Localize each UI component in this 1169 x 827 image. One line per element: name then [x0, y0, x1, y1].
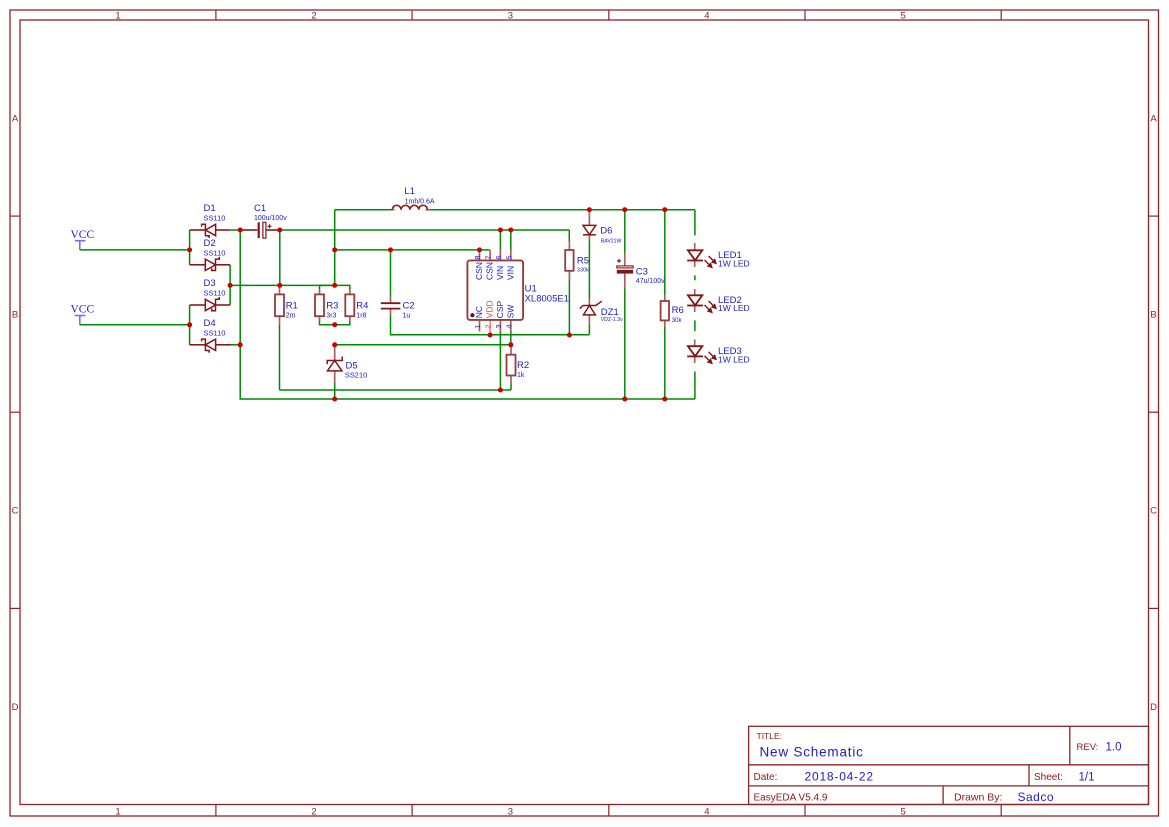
wire pin3 drop to CSP line [499, 331, 501, 390]
pin 2 VDD stub (red) [489, 320, 491, 335]
wire R2 bottom stub [510, 383, 512, 390]
wire pin5 riser [510, 230, 512, 250]
diode D1 SS110 [202, 224, 210, 238]
svg-text:R4: R4 [356, 301, 368, 312]
svg-text:7: 7 [484, 255, 493, 259]
svg-text:SS210: SS210 [345, 371, 368, 380]
svg-text:REV:: REV: [1077, 742, 1099, 753]
svg-text:1W LED: 1W LED [718, 303, 750, 313]
svg-text:SS110: SS110 [204, 329, 226, 338]
wire D2 cathode run [216, 264, 231, 266]
wire D2-D3 cathode link [229, 265, 231, 305]
svg-text:SS110: SS110 [204, 249, 226, 258]
svg-text:5: 5 [900, 11, 905, 22]
wire CSP line y390 [280, 389, 512, 391]
wire CSN line y250 [335, 249, 490, 251]
svg-text:1u: 1u [403, 313, 411, 320]
wire D4 cathode run [190, 344, 206, 346]
svg-text:1: 1 [115, 11, 120, 22]
wire bridge negative and ground rail [240, 230, 695, 399]
wire R5 bottom to VDD line [568, 271, 570, 335]
wire D3 anode run [190, 304, 206, 306]
svg-text:R3: R3 [326, 301, 338, 312]
svg-text:D4: D4 [204, 318, 216, 329]
resistor R4 1r8 [345, 294, 354, 316]
wire VCC upper to bridge node [80, 249, 190, 251]
wire inductor rail right [430, 209, 695, 211]
wire C1 left lead [240, 229, 257, 231]
svg-text:A: A [1150, 114, 1157, 125]
svg-text:D3: D3 [204, 278, 216, 289]
svg-text:100u/100v: 100u/100v [254, 215, 287, 222]
svg-text:C3: C3 [636, 266, 648, 277]
svg-text:R1: R1 [286, 301, 298, 312]
svg-text:47u/100v: 47u/100v [636, 278, 665, 285]
component pin stubs [568, 241, 570, 250]
svg-text:R6: R6 [672, 305, 684, 316]
wire L1 left riser [334, 210, 336, 286]
wire R3-R4 top staple [320, 285, 350, 291]
capacitor C1 100u/100v (polarized) [258, 222, 260, 238]
svg-text:SW: SW [505, 305, 515, 319]
LED LED1 1W LED [688, 250, 702, 260]
diode D4 SS110 [202, 339, 210, 353]
svg-text:B: B [12, 310, 18, 321]
inductor L1 1mh/0.6A [392, 205, 427, 209]
svg-text:8: 8 [473, 255, 482, 259]
svg-text:C: C [12, 506, 19, 517]
svg-text:2018-04-22: 2018-04-22 [805, 769, 874, 783]
wire D6-DZ1 link [588, 241, 590, 299]
wire D1 cathode run [190, 229, 206, 231]
resistor R3 3r3 [315, 294, 324, 316]
wire R6 top drop [664, 210, 666, 295]
wire C1 right lead [266, 229, 280, 231]
wire C1 plus down to R1 top [279, 230, 281, 285]
svg-text:L1: L1 [404, 186, 415, 197]
svg-text:D2: D2 [204, 238, 216, 249]
svg-text:6: 6 [494, 255, 503, 259]
svg-text:BAV21W: BAV21W [601, 239, 622, 245]
svg-text:3r3: 3r3 [326, 313, 336, 320]
svg-text:3: 3 [508, 807, 513, 818]
svg-text:2: 2 [311, 807, 316, 818]
diode D5 SS210 [327, 357, 342, 365]
svg-text:2m: 2m [286, 313, 296, 320]
wire R3-R4 bottom staple [320, 320, 350, 325]
wire D4 anode run [216, 344, 231, 346]
wire VCC lower to bridge node [80, 324, 190, 326]
svg-text:R2: R2 [517, 360, 529, 371]
wire LED string top drop [694, 210, 696, 236]
svg-text:VCC: VCC [71, 304, 95, 316]
svg-text:SS110: SS110 [204, 289, 226, 298]
resistor R1 2m [275, 294, 284, 316]
op-amp/regulator U1 XL8005E1 body [467, 260, 523, 320]
wire R6 bottom drop [664, 327, 666, 399]
wire R1 bottom drop [279, 325, 281, 390]
svg-text:EasyEDA V5.4.9: EasyEDA V5.4.9 [754, 793, 828, 804]
capacitor C3 47u/100v (polarized) [617, 260, 621, 262]
svg-text:VCC: VCC [71, 229, 95, 241]
wire junction dots [187, 247, 192, 252]
wire R5 top stub [568, 230, 570, 241]
wire LED2-LED3 link [694, 320, 696, 331]
wire pin4 drop to SW line [510, 331, 512, 345]
svg-text:1W LED: 1W LED [718, 354, 750, 364]
LED LED2 1W LED [688, 295, 702, 305]
svg-text:C: C [1150, 506, 1157, 517]
LED LED3 1W LED [688, 346, 702, 356]
svg-text:A: A [12, 114, 19, 125]
svg-text:CSP: CSP [495, 300, 505, 318]
svg-text:5: 5 [900, 807, 905, 818]
svg-text:R5: R5 [577, 255, 589, 266]
wire bridge left vertical D3-D4 [189, 305, 191, 345]
svg-text:1/1: 1/1 [1079, 771, 1095, 783]
svg-text:2: 2 [484, 324, 493, 328]
svg-text:1W LED: 1W LED [718, 258, 750, 268]
wire D1 anode run [216, 229, 230, 231]
svg-text:Sadco: Sadco [1018, 790, 1055, 804]
svg-text:1mh/0.6A: 1mh/0.6A [405, 198, 435, 205]
capacitor C2 1u [381, 302, 401, 304]
wire C3 bottom drop [624, 289, 626, 400]
wire LED3 to ground rail [694, 372, 696, 400]
svg-text:1r8: 1r8 [356, 313, 366, 320]
svg-text:4: 4 [704, 11, 709, 22]
column tick marks [215, 10, 217, 20]
wire SW line y345 [335, 344, 511, 346]
svg-text:CSN: CSN [474, 262, 484, 280]
svg-text:VIN: VIN [505, 266, 515, 280]
title block grid [749, 726, 1149, 804]
wire inductor rail left [335, 209, 393, 211]
svg-text:D: D [12, 702, 19, 713]
wire D2 anode run [190, 264, 206, 266]
wire D3 cathode run [216, 304, 231, 306]
svg-text:330k: 330k [577, 268, 589, 274]
wire C3 top drop [624, 210, 626, 253]
svg-text:Date:: Date: [754, 772, 778, 783]
svg-text:D1: D1 [204, 203, 216, 214]
svg-text:VDZ-1.3v: VDZ-1.3v [601, 317, 623, 323]
wire pin6 riser [499, 230, 501, 250]
svg-text:Drawn By:: Drawn By: [954, 792, 1002, 804]
wire top rail y230 C1 to R5 [280, 229, 570, 231]
diode D3 SS110 [212, 297, 220, 311]
wire bridge left vertical D1-D2 [189, 230, 191, 265]
wire C2 bottom to VDD line [391, 316, 590, 335]
svg-text:C1: C1 [254, 203, 266, 214]
svg-text:New Schematic: New Schematic [760, 745, 864, 760]
svg-text:TITLE:: TITLE: [757, 731, 783, 741]
svg-text:30k: 30k [672, 317, 683, 324]
svg-text:1: 1 [473, 324, 482, 328]
svg-text:3: 3 [508, 11, 513, 22]
svg-text:SS110: SS110 [204, 214, 226, 223]
diode D6 BAV21W [583, 225, 596, 234]
svg-text:1: 1 [115, 807, 120, 818]
svg-text:D6: D6 [600, 225, 612, 236]
svg-text:VIN: VIN [495, 266, 505, 280]
diode D2 SS110 [212, 257, 220, 271]
resistor R6 30k [661, 301, 669, 320]
svg-text:1k: 1k [517, 372, 525, 379]
svg-text:Sheet:: Sheet: [1034, 772, 1063, 783]
svg-text:C2: C2 [403, 301, 415, 312]
resistor R5 330k [565, 250, 573, 271]
svg-text:NC: NC [474, 306, 484, 318]
zener diode DZ1 VDZ-1.3v [580, 301, 602, 308]
svg-text:CSN: CSN [485, 262, 495, 280]
svg-text:2: 2 [311, 11, 316, 22]
svg-text:B: B [1150, 310, 1156, 321]
wire DZ1 bottom riser [588, 326, 590, 335]
wire LED1-LED2 link [694, 275, 696, 280]
row tick marks [10, 215, 20, 217]
resistor R2 1k [507, 355, 516, 376]
svg-text:3: 3 [494, 324, 503, 328]
wire bridge output to R1 R3 R4 top [230, 284, 335, 286]
wire D5 bottom to ground rail [334, 383, 336, 399]
wire C2 top stub [390, 250, 392, 296]
U1 pin 1 indicator dot [470, 313, 474, 317]
svg-text:4: 4 [504, 324, 513, 328]
svg-text:D: D [1150, 702, 1157, 713]
svg-text:4: 4 [704, 807, 709, 818]
svg-text:1.0: 1.0 [1106, 741, 1122, 753]
svg-text:XL8005E1: XL8005E1 [525, 293, 569, 304]
svg-text:5: 5 [504, 255, 513, 259]
svg-text:VDD: VDD [485, 300, 495, 318]
